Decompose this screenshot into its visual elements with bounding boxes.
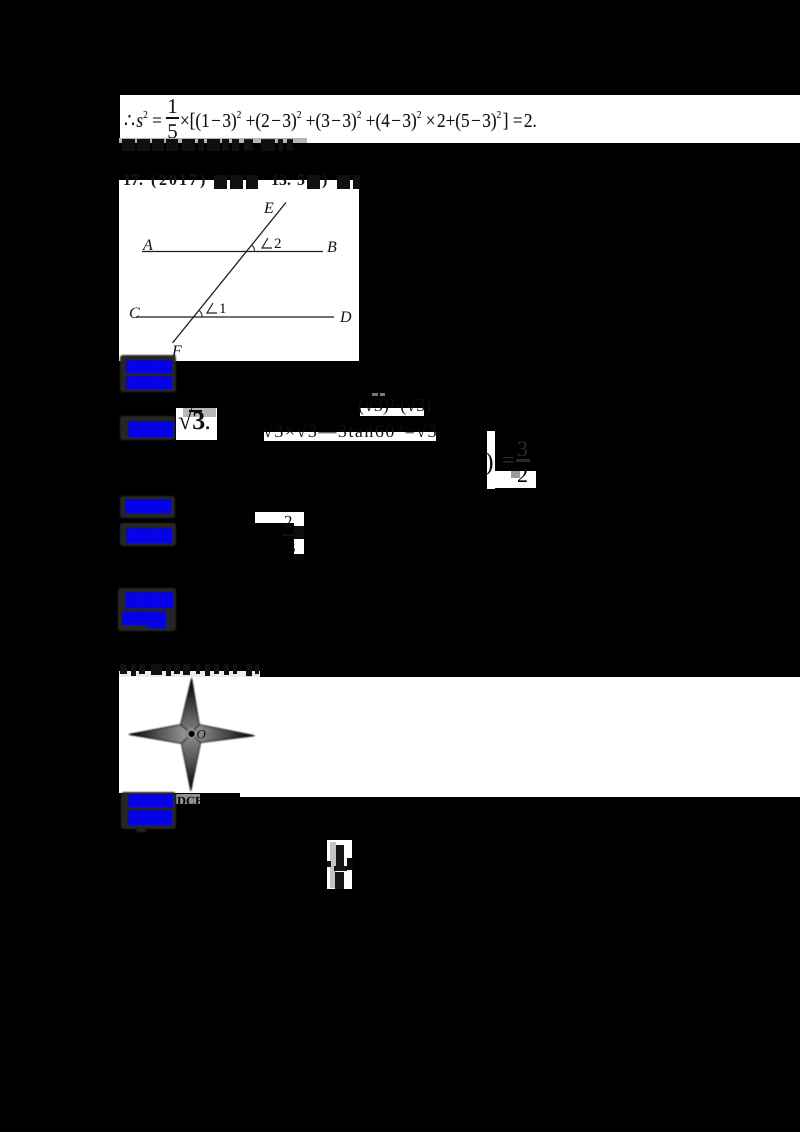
DCB text tops [177,793,203,808]
transversal EF [173,203,287,344]
sliver B: bottoms of question line over figure box top [0,0,1,1]
bottom fraction patch G [327,840,352,889]
line CD [136,316,334,318]
angle arc at CD [199,310,202,316]
east spike [191,725,254,743]
blue label 7 tail [147,624,166,628]
svg-text:C: C [129,305,140,322]
blue label 5 [126,528,172,543]
south spike [182,734,201,791]
blue label 9 [128,810,172,825]
sliver A: tops of bold text under strip1 [119,138,307,143]
svg-text:A: A [142,237,153,254]
bottom fraction patch content [330,842,336,888]
center dot [189,731,195,737]
tiny gray artifact ticks [372,393,378,396]
blue label 6 [125,592,173,608]
svg-text:O: O [197,727,207,742]
svg-text:E: E [263,200,274,217]
blue label 1 (answer tag) [126,360,172,373]
formula strip D2 [360,408,424,416]
omega patch content [284,512,293,532]
D1 sqrt3 content [178,406,210,436]
svg-text:1: 1 [219,301,227,317]
rho patch horizontal [487,471,536,488]
star image band (top sliver) [119,671,260,677]
blue label 3 [128,421,173,437]
angle 1 label [207,303,217,313]
north spike [181,679,200,734]
center patch [184,727,198,741]
rho patch content [485,447,494,477]
star image box [119,677,800,793]
angle arc at AB [252,245,255,251]
sqrt3 small patch D1 [176,408,217,440]
DCB gray patch [176,794,200,804]
angle 2 label [262,238,272,248]
star body: four spikes [129,679,254,791]
formula image strip 1 [120,95,800,143]
blue label 2 (analysis tag) [126,376,172,389]
formula strip D3 [264,432,436,441]
rho patch vertical [487,431,495,489]
blue label 8 [128,794,173,807]
svg-text:2: 2 [274,236,282,252]
blue label 7 [122,611,166,625]
D2 row glyph bottoms [358,395,431,416]
omega patch right column [294,512,304,560]
svg-text:D: D [339,309,352,326]
omega patch top strip [255,512,304,523]
fraction 1/5 [166,96,179,117]
west spike [129,725,191,744]
blue label 4 [125,499,171,513]
sliver C over star box top [0,663,1,665]
line AB [142,251,323,253]
svg-text:B: B [327,239,337,256]
geometry figure white box [119,180,359,361]
D3 row glyph bottoms [263,421,438,442]
